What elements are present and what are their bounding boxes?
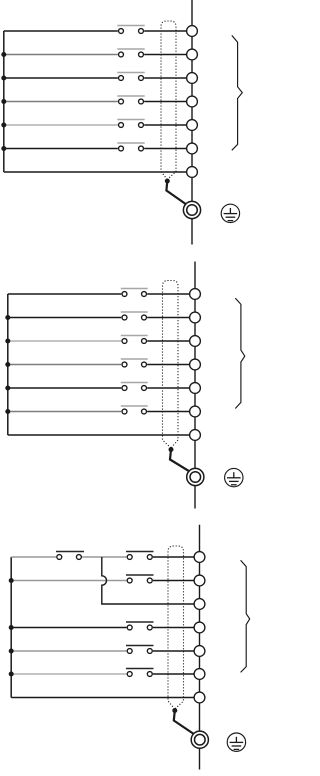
switch block 2 row 4 actuator bar (121, 358, 148, 360)
terminal 3 block 3 (194, 599, 205, 610)
block 3 junction on left bus, row 6 (9, 672, 14, 677)
wire: block 2 row 2 right segment to terminal (147, 317, 189, 319)
wire: block 3 row 4 right segment to terminal (153, 627, 194, 629)
wire: block 2 row 1 left segment (8, 293, 122, 295)
wire: block 2 common row 7 (8, 434, 189, 436)
block 1 junction on left bus, row 6 (1, 146, 6, 151)
wire: block 2 shield drain lead (170, 450, 189, 472)
block 2 brace: grouping brace (235, 298, 245, 408)
switch block 3 row 2 contact circles (127, 578, 132, 583)
terminal 4 block 3 (194, 622, 205, 633)
wire: block 3 row 5 right segment to terminal (153, 650, 194, 652)
block 1 shielded-cable dotted envelope (161, 21, 176, 180)
block 2 terminal bus (vertical) (194, 262, 196, 509)
block 1 shield junction node (165, 179, 170, 184)
switch block 3 row 1 first contact circles (57, 555, 62, 560)
switch block 3 row 1 second actuator bar (126, 551, 154, 553)
wire: block 1 shield drain lead (166, 181, 186, 204)
wire: block 3 row 2 right segment to terminal (153, 580, 194, 582)
switch block 3 row 1 first actuator bar (56, 551, 84, 553)
switch block 1 row 2 contact circles (119, 52, 124, 57)
switch block 2 row 1 contact circles (122, 292, 127, 297)
wire: block 1 row 4 right segment to terminal (144, 101, 186, 103)
block 1 brace: grouping brace (232, 35, 243, 150)
switch block 2 row 4 contact circles (122, 362, 127, 367)
switch block 1 row 6 contact circles (119, 146, 124, 151)
switch block 1 row 1 contact circles (119, 29, 124, 34)
terminal 7 block 1 (187, 167, 198, 178)
switch block 2 row 2 actuator bar (121, 311, 148, 313)
block 1 junction on left bus, row 2 (1, 52, 6, 57)
terminal 4 block 1 (187, 96, 198, 107)
terminal 6 block 1 (187, 143, 198, 154)
wire: block 1 row 6 left segment (4, 148, 118, 150)
wire: block 3 row 6 right segment to terminal (153, 673, 194, 675)
switch block 3 row 4 actuator bar (126, 621, 154, 623)
block 2 junction on left bus, row 4 (5, 362, 10, 367)
wire: block 3 row 1 middle segment (82, 556, 126, 558)
wire: block 3 row 2 left segment (11, 580, 126, 582)
block 2 junction on left bus, row 3 (5, 339, 10, 344)
wire: block 3 row 1 left segment (11, 556, 56, 558)
wire: block 1 row 4 left segment (4, 101, 118, 103)
switch block 2 row 5 actuator bar (121, 382, 148, 384)
block 3 junction on left bus, row 4 (9, 625, 14, 630)
wire: block 1 row 3 right segment to terminal (144, 77, 186, 79)
block 2 ground: protective earth symbol (225, 468, 243, 486)
wire: block 3 feeder from row 1 down to row 3 (hops over row 2) (102, 557, 194, 604)
switch block 1 row 4 actuator bar (117, 95, 144, 97)
terminal 5 block 3 (194, 646, 205, 657)
block 1 junction on left bus, row 3 (1, 76, 6, 81)
wire: block 3 common row 7 (11, 697, 194, 699)
wire: block 1 row 2 left segment (4, 54, 118, 56)
terminal 5 block 2 (190, 383, 201, 394)
terminal 3 block 1 (187, 73, 198, 84)
wire: block 2 row 3 right segment to terminal (147, 340, 189, 342)
block 2 shield junction node (169, 447, 174, 452)
terminal 4 block 2 (190, 359, 201, 370)
switch block 3 row 5 contact circles (127, 649, 132, 654)
wire: block 1 row 1 left segment (4, 30, 118, 32)
block 3 junction on left bus, row 5 (9, 649, 14, 654)
terminal 2 block 3 (194, 575, 205, 586)
switch block 2 row 1 actuator bar (121, 288, 148, 290)
wire: block 3 row 4 left segment (11, 627, 126, 629)
switch block 3 row 6 actuator bar (126, 668, 154, 670)
switch block 3 row 5 actuator bar (126, 645, 154, 647)
block 3 terminal bus (vertical) (199, 525, 201, 770)
switch block 2 row 2 contact circles (122, 315, 127, 320)
terminal 1 block 3 (194, 552, 205, 563)
switch block 1 row 6 actuator bar (117, 142, 144, 144)
wire: block 1 row 3 left segment (4, 77, 118, 79)
block 2 shield terminal (double circle) (187, 468, 204, 485)
terminal 1 block 2 (190, 289, 201, 300)
switch block 1 row 5 actuator bar (117, 119, 144, 121)
wire: block 1 row 5 left segment (4, 124, 118, 126)
switch block 1 row 3 contact circles (119, 76, 124, 81)
switch block 1 row 1 actuator bar (117, 25, 144, 27)
block 3 brace: grouping brace (241, 560, 250, 672)
wire: block 2 row 5 right segment to terminal (147, 387, 189, 389)
switch block 3 row 2 actuator bar (126, 574, 154, 576)
block 3 shield junction node (172, 708, 177, 713)
block 2 junction on left bus, row 5 (5, 386, 10, 391)
wire: block 2 row 2 left segment (8, 317, 122, 319)
wire: block 2 row 1 right segment to terminal (147, 293, 189, 295)
block 1 ground: protective earth symbol (221, 204, 239, 222)
block 3 left supply bus (vertical) (10, 557, 12, 698)
wire: block 2 row 4 left segment (8, 364, 122, 366)
switch block 2 row 5 contact circles (122, 386, 127, 391)
switch block 1 row 3 actuator bar (117, 72, 144, 74)
switch block 3 row 1 second contact circles (127, 555, 132, 560)
wire: block 1 common row 7 (4, 171, 186, 173)
wire: block 2 row 5 left segment (8, 387, 122, 389)
switch block 1 row 5 contact circles (119, 123, 124, 128)
terminal 7 block 3 (194, 692, 205, 703)
terminal 5 block 1 (187, 120, 198, 131)
terminal 3 block 2 (190, 336, 201, 347)
wire: block 3 row 5 left segment (11, 650, 126, 652)
wire: block 2 row 3 left segment (8, 340, 122, 342)
block 1 junction on left bus, row 4 (1, 99, 6, 104)
block 1 junction on left bus, row 5 (1, 123, 6, 128)
terminal 6 block 2 (190, 406, 201, 417)
switch block 2 row 6 actuator bar (121, 405, 148, 407)
block 3 shielded-cable dotted envelope (168, 546, 184, 709)
terminal 2 block 2 (190, 312, 201, 323)
wire: block 2 row 4 right segment to terminal (147, 364, 189, 366)
terminal 2 block 1 (187, 49, 198, 60)
wire: block 3 shield drain lead (174, 711, 194, 735)
switch block 3 row 4 contact circles (127, 625, 132, 630)
block 3 ground: protective earth symbol (227, 733, 245, 751)
block 1 terminal bus (vertical) (191, 0, 193, 245)
terminal 6 block 3 (194, 669, 205, 680)
switch block 2 row 3 actuator bar (121, 335, 148, 337)
wire: block 2 row 6 left segment (8, 411, 122, 413)
wire: block 1 row 5 right segment to terminal (144, 124, 186, 126)
wire: block 3 row 6 left segment (11, 673, 126, 675)
terminal 7 block 2 (190, 430, 201, 441)
switch block 2 row 6 contact circles (122, 409, 127, 414)
wire: block 1 row 2 right segment to terminal (144, 54, 186, 56)
switch block 3 row 6 contact circles (127, 672, 132, 677)
block 3 shield terminal (double circle) (191, 731, 208, 748)
wire: block 3 row 1 right segment to terminal (153, 556, 194, 558)
switch block 2 row 3 contact circles (122, 339, 127, 344)
wire: block 1 row 1 right segment to terminal (144, 30, 186, 32)
switch block 1 row 4 contact circles (119, 99, 124, 104)
block 2 junction on left bus, row 2 (5, 315, 10, 320)
block 1 left supply bus (vertical) (3, 31, 5, 172)
block 3 junction on left bus, row 2 (9, 578, 14, 583)
block 2 left supply bus (vertical) (7, 294, 9, 435)
wire: block 1 row 6 right segment to terminal (144, 148, 186, 150)
block 1 shield terminal (double circle) (183, 201, 200, 218)
terminal 1 block 1 (187, 26, 198, 37)
wire: block 2 row 6 right segment to terminal (147, 411, 189, 413)
switch block 1 row 2 actuator bar (117, 48, 144, 50)
block 2 junction on left bus, row 6 (5, 409, 10, 414)
block 2 shielded-cable dotted envelope (163, 281, 179, 449)
